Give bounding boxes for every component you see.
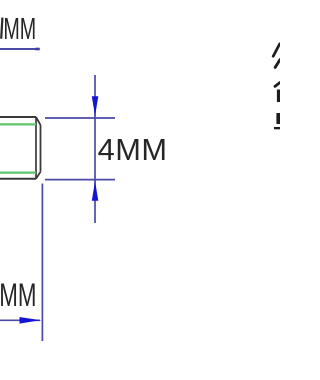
- chinese char fragment 3 (right edge, lower, with dash): [276, 113, 280, 124]
- partial glyph stroke left of top MM: [1, 18, 2, 39]
- svg-text:MM: MM: [0, 277, 37, 313]
- arrowhead down (top of 4MM dim): [92, 96, 99, 117]
- thread line top (green): [0, 123, 36, 125]
- screw body top edge: [0, 116, 36, 118]
- chinese char fragment 2 (right edge, middle): [275, 83, 280, 87]
- chinese char fragment 1 (right edge, top): [273, 44, 280, 68]
- dimension line (top, cut off at left): [0, 48, 40, 50]
- thread line bottom (green): [0, 172, 36, 174]
- arrowhead up (bottom of 4MM dim): [92, 180, 99, 201]
- screw chamfer top: [36, 117, 41, 125]
- dimension line (bottom, cut off at left): [0, 319, 40, 321]
- screw body bottom edge: [0, 178, 36, 180]
- screw chamfer boundary vertical: [35, 117, 37, 179]
- screw chamfer bottom: [36, 172, 41, 179]
- vertical dimension line 4MM: [94, 75, 96, 223]
- extension line bottom (4MM dim): [45, 179, 115, 181]
- svg-text:MM: MM: [3, 13, 36, 46]
- extension line vertical (bottom dim): [41, 184, 43, 342]
- svg-text:4MM: 4MM: [98, 132, 168, 167]
- extension line top (4MM dim): [45, 117, 115, 119]
- arrowhead right (bottom dim): [20, 317, 42, 324]
- screw right edge: [40, 125, 42, 172]
